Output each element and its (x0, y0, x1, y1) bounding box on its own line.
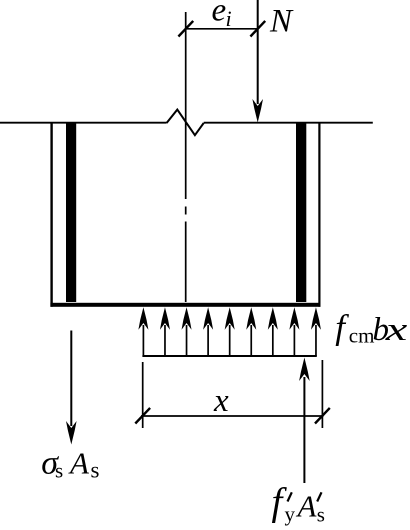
tick left of x dimension (135, 408, 150, 424)
stress arrow 3 (182, 307, 192, 356)
svg-text:A: A (68, 446, 90, 481)
svg-text:N: N (269, 4, 294, 40)
svg-text:x: x (384, 312, 407, 348)
tick left of ei dimension (178, 21, 193, 37)
f'y A's arrow (compression steel force, upward) (303, 377, 305, 483)
stress arrow 5 (225, 307, 235, 356)
stress arrow 8 (289, 307, 299, 356)
tick right of x dimension (315, 408, 330, 424)
svg-text:A: A (296, 489, 318, 524)
svg-text:cm: cm (349, 324, 375, 348)
stress arrow 9 (311, 307, 321, 356)
dimension line ei (186, 28, 258, 30)
tick right of ei dimension (250, 21, 265, 37)
column bottom edge (thick) (50, 303, 320, 307)
x dimension right extension line (321, 360, 323, 428)
right rebar A's (296, 123, 306, 302)
x dimension left extension line (142, 362, 144, 428)
svg-text:s: s (317, 503, 325, 527)
stress block baseline (142, 355, 316, 357)
left rebar As (66, 123, 76, 302)
svg-text:s: s (91, 458, 100, 483)
x dimension line (141, 415, 324, 417)
stress arrow 4 (203, 307, 213, 356)
stress arrow 1 (138, 307, 148, 356)
break symbol (zigzag) (167, 110, 204, 136)
svg-text:y: y (285, 502, 296, 526)
top surface line (right segment) (204, 122, 373, 124)
stress arrow 7 (268, 307, 278, 356)
column right edge (318, 122, 320, 307)
column left edge (50, 122, 52, 307)
stress arrow 2 (160, 307, 170, 356)
sigma-s As arrow (tension steel force, downward) (70, 331, 72, 427)
stress arrow 6 (246, 307, 256, 356)
force N arrowhead (252, 99, 263, 123)
svg-text:e: e (212, 0, 227, 29)
force N line (257, 0, 259, 104)
svg-text:x: x (213, 383, 229, 419)
centerline (dash-dot axis) (185, 12, 187, 199)
top surface line (left segment) (0, 122, 167, 124)
svg-text:i: i (226, 6, 232, 31)
svg-text:s: s (55, 459, 63, 483)
